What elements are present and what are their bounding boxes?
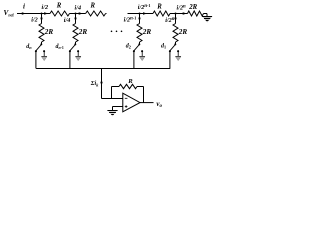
- svg-text:i/2: i/2: [31, 17, 38, 24]
- switch left contact n: [35, 50, 37, 52]
- svg-text:2R: 2R: [188, 4, 197, 11]
- wire branch 1 from rail: [175, 14, 177, 24]
- wire output: [140, 102, 154, 104]
- wire left contact to bus 2: [133, 51, 135, 68]
- ground op-amp: [108, 111, 117, 117]
- wire feedback top right: [137, 86, 144, 88]
- ground (right end of ladder): [203, 17, 212, 23]
- wire between R1 and R2: [70, 13, 86, 15]
- switch pole dot n: [40, 43, 42, 45]
- switch left contact 2: [133, 50, 135, 52]
- resistor 2R branch 1: [173, 24, 178, 43]
- wire resistor to switch pole n-1: [75, 42, 77, 44]
- svg-text:i: i: [23, 2, 25, 10]
- switch lever dn: [36, 45, 41, 51]
- branch current arrow n-1: [74, 18, 76, 22]
- current arrow i/2^n: [183, 12, 187, 14]
- switch left contact n-1: [69, 50, 71, 52]
- resistor 2R branch n-1: [73, 24, 78, 43]
- wire noninverting input: [113, 106, 123, 108]
- switch pole dot n-1: [74, 43, 76, 45]
- svg-text:i/2: i/2: [42, 4, 49, 11]
- wire feedback top left: [112, 86, 120, 88]
- wire between R3 and terminating 2R: [170, 13, 188, 15]
- switch right contact n-1: [77, 50, 79, 52]
- switch lever d1: [170, 45, 175, 51]
- wire to inverting input: [102, 98, 123, 100]
- branch current arrow n: [40, 18, 42, 22]
- svg-text:2R: 2R: [142, 28, 152, 36]
- op-amp U1: [123, 93, 140, 112]
- wire top rail segment 2: [128, 13, 154, 15]
- branch current arrow 1: [174, 18, 176, 22]
- wire right contact to ground 2: [141, 51, 143, 56]
- current arrow i/2^(n-1): [143, 12, 147, 14]
- resistor 2R branch n: [39, 24, 44, 43]
- svg-text:i/4: i/4: [64, 17, 71, 24]
- op-amp plus sign: [125, 106, 128, 108]
- wire right contact to ground n-1: [77, 51, 79, 56]
- svg-text:i/4: i/4: [75, 5, 82, 12]
- wire resistor to switch pole 2: [139, 42, 141, 44]
- switch pole dot 1: [174, 43, 176, 45]
- node 4 junction: [175, 13, 177, 15]
- wire bus drop to op-amp: [101, 69, 103, 99]
- svg-text:R: R: [90, 3, 96, 10]
- signal ground arrow 2: [139, 57, 145, 61]
- node 3 junction: [139, 13, 141, 15]
- switch pole dot 2: [138, 43, 140, 45]
- wire left contact to bus n: [35, 51, 37, 68]
- svg-text:d2: d2: [126, 44, 131, 50]
- signal ground arrow n: [41, 57, 47, 61]
- resistor R1: [50, 11, 70, 16]
- wire right contact to ground 1: [177, 51, 179, 56]
- node 1 junction: [41, 13, 43, 15]
- wire right contact to ground n: [43, 51, 45, 56]
- node 2 junction: [75, 13, 77, 15]
- signal ground arrow 1: [175, 57, 181, 61]
- wire top rail segment 1: [17, 13, 50, 15]
- wire branch n-1 from rail: [75, 14, 77, 24]
- switch right contact 1: [177, 50, 179, 52]
- branch current arrow 2: [138, 18, 140, 22]
- resistor R feedback: [119, 84, 137, 88]
- op-amp minus sign: [125, 97, 128, 99]
- svg-text:2R: 2R: [44, 28, 54, 36]
- current arrow i/4: [79, 12, 83, 14]
- circuit schematic: n-bit R-2R ladder DAC with op-amp output: [0, 0, 220, 123]
- current arrow i/2: [44, 12, 48, 14]
- switch right contact n: [43, 50, 45, 52]
- svg-text:2R: 2R: [178, 28, 188, 36]
- svg-text:R: R: [56, 3, 62, 10]
- ellipsis dots: [111, 31, 113, 33]
- current arrow i: [22, 12, 26, 14]
- svg-text:Σik: Σik: [90, 81, 99, 87]
- wire after R2: [105, 13, 108, 15]
- switch lever dn-1: [70, 45, 75, 51]
- resistor R3: [153, 11, 170, 16]
- wire branch n from rail: [41, 14, 43, 24]
- wire to right ground: [204, 13, 208, 15]
- wire feedback right vertical: [143, 87, 145, 103]
- sum current arrow: [100, 82, 102, 86]
- wire left contact to bus 1: [169, 51, 171, 68]
- svg-text:d1: d1: [161, 44, 166, 50]
- switch right contact 2: [141, 50, 143, 52]
- switch left contact 1: [169, 50, 171, 52]
- svg-text:R: R: [156, 3, 162, 10]
- wire resistor to switch pole 1: [175, 42, 177, 44]
- resistor 2R terminating: [188, 11, 204, 16]
- resistor R2: [86, 11, 106, 16]
- svg-text:R: R: [127, 78, 133, 85]
- wire resistor to switch pole n: [41, 42, 43, 44]
- wire left contact to bus n-1: [69, 51, 71, 68]
- wire feedback left vertical: [111, 87, 113, 99]
- svg-text:dn: dn: [26, 44, 32, 50]
- wire branch 2 from rail: [139, 14, 141, 24]
- wire output bus: [36, 68, 170, 70]
- svg-text:2R: 2R: [78, 28, 88, 36]
- signal ground arrow n-1: [75, 57, 81, 61]
- resistor 2R branch 2: [137, 24, 142, 43]
- switch lever d2: [134, 45, 139, 51]
